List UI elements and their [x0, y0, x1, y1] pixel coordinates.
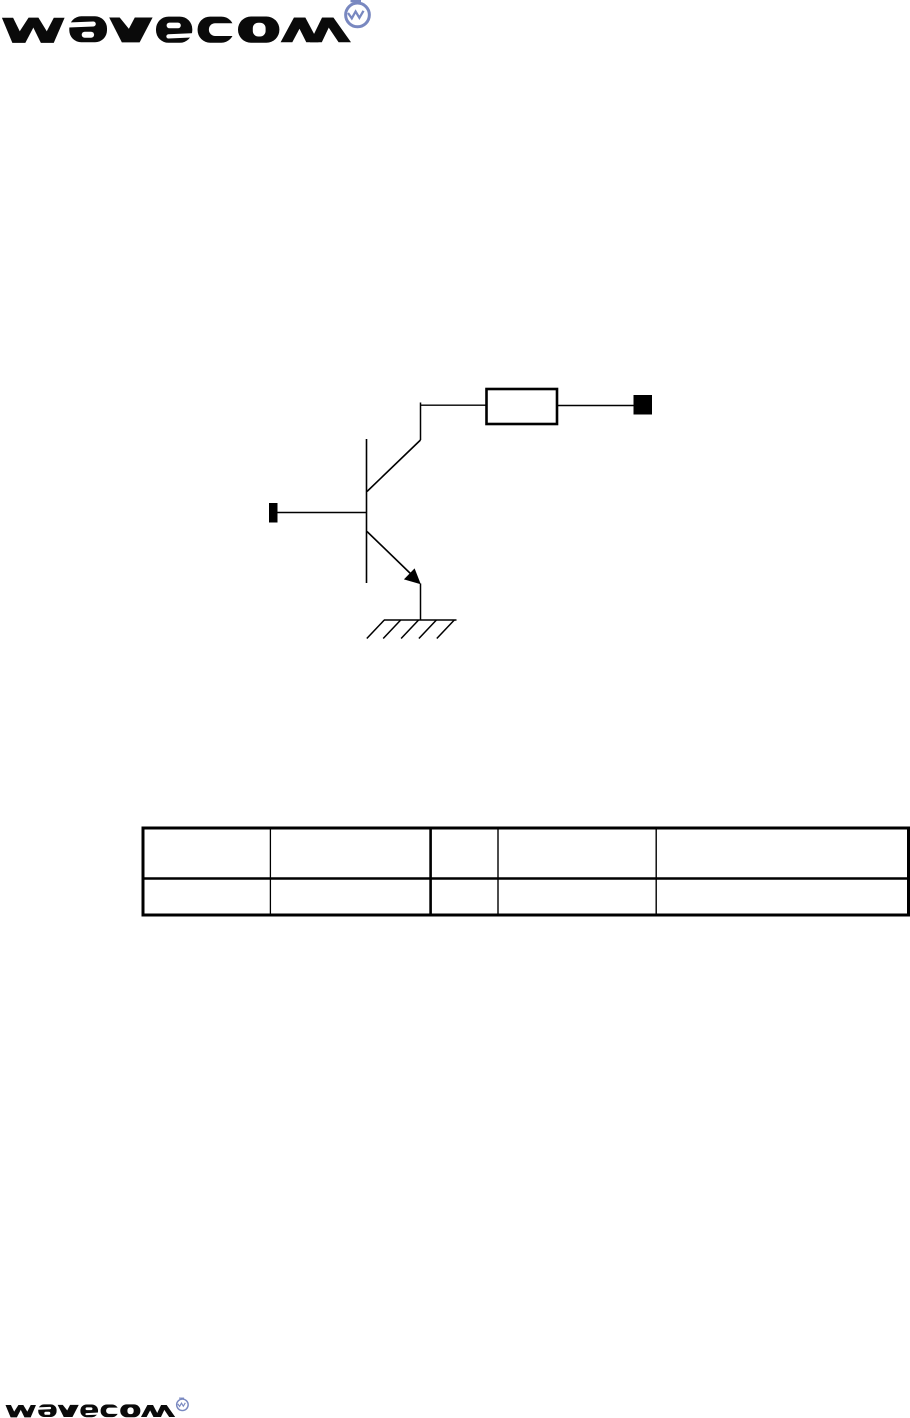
circuit schematic [269, 389, 652, 639]
node: output pad (black square) [634, 395, 653, 415]
table [142, 828, 910, 915]
resistor R1 [487, 389, 558, 424]
wire: collector horizontal to resistor [421, 404, 487, 406]
table row divider [142, 877, 910, 880]
bottom wavecom logo [6, 1404, 176, 1417]
wire: resistor to output pad [558, 405, 634, 407]
table column divider 1 [269, 828, 271, 915]
ground [367, 620, 457, 639]
wire: collector vertical [420, 403, 422, 441]
transistor Q1 collector diagonal [367, 440, 421, 492]
top wavecom logo [2, 16, 351, 43]
bottom wavecom logo registered icon [177, 1398, 189, 1411]
transistor Q1 base bar [366, 439, 368, 583]
wire: emitter vertical to ground [420, 584, 422, 621]
table column divider 2 [429, 828, 432, 915]
transistor Q1 emitter arrowhead [404, 568, 421, 584]
table column divider 4 [655, 828, 657, 915]
top wavecom logo registered icon [346, 0, 370, 27]
table column divider 3 [497, 828, 499, 915]
node: base input pad [269, 503, 278, 523]
transistor Q1 emitter diagonal [367, 532, 413, 577]
wire: base wire [278, 512, 367, 514]
table outer border [143, 828, 909, 915]
